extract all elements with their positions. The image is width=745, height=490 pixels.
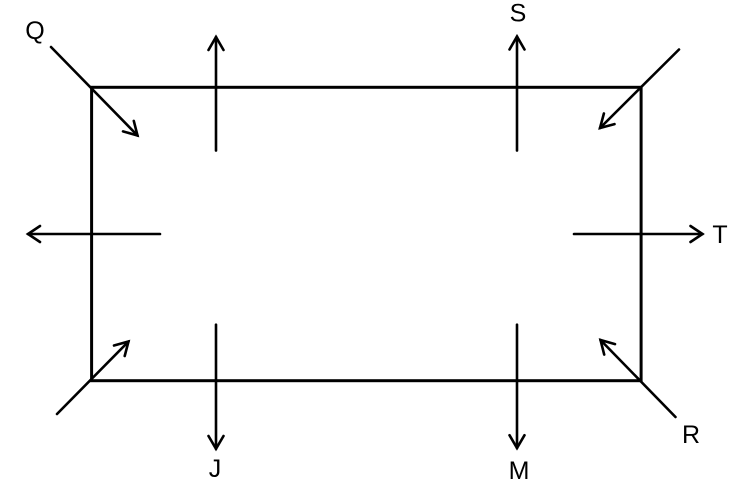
- force arrow R (bottom-right diagonal, pointing into rectangle): [601, 340, 676, 417]
- svg-text:R: R: [682, 421, 700, 449]
- svg-text:S: S: [510, 0, 527, 28]
- svg-text:M: M: [509, 457, 530, 485]
- force arrow at top-right corner (diagonal, pointing into rectangle): [600, 50, 679, 129]
- force arrow left (middle of left edge, pointing out left): [28, 226, 160, 242]
- svg-text:J: J: [209, 455, 222, 483]
- svg-text:Q: Q: [25, 17, 44, 45]
- force arrow Q (top-left diagonal, pointing into rectangle): [51, 47, 138, 136]
- force arrow M (down through bottom edge, right): [510, 325, 525, 448]
- rectangle body: [92, 87, 642, 380]
- force arrow J (down through bottom edge, left): [209, 325, 224, 449]
- force arrow S (up at top-right of top edge): [510, 37, 525, 151]
- force arrow up at top-left of top edge (unlabeled): [209, 37, 224, 151]
- force arrow T (middle of right edge, pointing out right): [574, 226, 703, 242]
- svg-text:T: T: [712, 221, 727, 249]
- force arrow at bottom-left corner (diagonal, pointing into rectangle): [57, 342, 129, 415]
